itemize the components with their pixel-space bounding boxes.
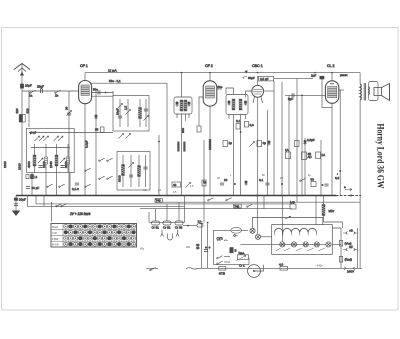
coil L1c [42,157,48,168]
terminal column right [357,228,359,268]
svg-text:2V + 120 km/s: 2V + 120 km/s [69,212,91,216]
IF transformer T1 outline [174,97,192,114]
trimmer arrows between L2 and L3 [118,133,130,138]
svg-text:1340: 1340 [49,161,53,168]
motor Cr1 [239,264,264,278]
socket Rad [339,257,352,263]
cap L2d [143,99,148,127]
arrow on bus right [344,185,352,191]
coil L1f [64,157,70,168]
tube CL2 [325,64,347,196]
capacitor on x=69 [65,91,72,196]
terminal strip box above Cr row [149,196,185,223]
svg-text:1310: 1310 [42,161,46,168]
svg-text:(Rad): (Rad) [345,258,353,262]
resistor Lsp [290,200,296,209]
terminal column left [340,228,342,268]
svg-text:Cr 1: Cr 1 [239,264,245,268]
svg-text:4000: 4000 [27,161,31,168]
switch table row labels [52,226,59,247]
wire x=274 [273,81,275,196]
wire y=222 to terminals [324,221,343,223]
wire lamp2 to heater box [261,236,272,238]
cap 60uF below L1 [26,186,39,190]
wire x=159 [158,135,160,196]
lower line y=202.2 [155,201,360,203]
screen wire y=83.2 [91,79,167,195]
wire x=204 column [203,140,205,223]
T1 bottom wires [177,114,189,196]
svg-text:CTR: CTR [217,237,224,241]
svg-text:0,1µF: 0,1µF [85,140,89,148]
link wire y=132.5 [29,132,113,134]
svg-text:Res.: Res. [239,251,245,255]
regulator Res [237,251,249,261]
heater top feed [253,218,323,229]
resistor box 4B/AD [302,152,313,160]
svg-text:40: 40 [196,246,200,250]
wire heater box to terminals [332,228,341,244]
svg-text:748: 748 [234,204,239,208]
coil L3c [138,155,141,187]
svg-text:0,1: 0,1 [259,178,264,182]
capacitor 25pF [37,85,44,94]
svg-text:90pF: 90pF [248,76,255,80]
svg-text:B: B [235,249,237,253]
wire antenna input y=91 [22,90,79,92]
svg-text:0,1: 0,1 [236,119,241,123]
svg-text:CF 2: CF 2 [205,64,213,68]
IF transformer T2 outline [226,95,248,115]
svg-text:+B: +B [349,229,353,233]
Cr terminal risers [156,202,180,221]
electrolytic pair 40uF [196,243,211,251]
box GTB [219,267,226,276]
terminal arrows on bottom line [344,267,355,274]
speaker return wire [359,100,361,268]
heater lamp 2 [291,242,296,247]
resistor 50 [311,178,317,187]
secondary coil [368,87,371,95]
T2 coil a [232,99,235,110]
svg-text:220: 220 [15,108,19,113]
svg-text:Cr 62: Cr 62 [163,226,171,230]
svg-text:3010: 3010 [118,175,122,182]
antenna [14,64,30,92]
svg-text:1A: 1A [285,148,289,152]
svg-text:25pF: 25pF [37,85,44,89]
svg-text:1310: 1310 [18,163,22,170]
mains vertical pair [200,222,209,268]
contact CTR [217,237,228,242]
svg-text:60c: 60c [186,245,191,249]
transformer core [364,83,365,101]
coil L3a [118,155,125,187]
switch lever a [217,256,230,259]
coil box L3 outline [117,152,150,191]
coil L1d [49,155,58,168]
output transformer primary coil [360,84,361,100]
wire x=321 down [320,140,322,196]
wire x=267 [267,110,269,196]
wire x=96 [95,91,97,196]
heater lamp 4 [314,242,319,247]
line cord capacitor oval [231,227,242,237]
switch levers below bus [208,198,253,208]
terminal +B [343,229,358,235]
bottom line y=268.3 [198,267,363,269]
vertical x=264 [263,196,265,209]
jumper squiggle on bottom line [186,268,198,269]
output choke [322,196,334,223]
capacitor 1uF stub [311,74,332,108]
coil taps [275,233,317,236]
svg-text:0,5 µF: 0,5 µF [260,77,269,81]
svg-text:Lsp: Lsp [290,200,295,204]
svg-text:1b: 1b [55,94,59,98]
svg-text:1,5: 1,5 [124,105,128,110]
resistor box 1A/AD 2 [316,152,326,159]
T1 cap left [175,102,178,107]
svg-text:35: 35 [95,128,99,132]
wire x=316 to heater box [315,196,317,225]
T1 coil b [184,100,187,111]
lower line y=208.7 [140,208,292,210]
svg-text:50c · 0,1: 50c · 0,1 [109,79,121,83]
coil box L2 outline [113,96,149,132]
fuse lamp 1 [250,228,255,233]
switch on heater feed [285,216,291,219]
svg-text:900: 900 [181,128,185,133]
svg-text:~240v: ~240v [315,264,323,268]
caps row y=184 left [72,183,79,191]
svg-text:Horny Lord 36 GW: Horny Lord 36 GW [375,124,385,189]
svg-text:µmax: µmax [340,73,348,77]
ground [12,211,20,217]
wire x=282 [281,82,283,196]
T1 feed wire [181,73,183,97]
svg-text:0,3: 0,3 [250,123,255,127]
speaker magnet and cone [374,84,390,101]
svg-text:50c: 50c [93,88,98,92]
fuse 1A link [183,220,203,228]
svg-text:Lt: Lt [35,175,38,179]
power unit box [214,230,250,264]
tube CF2 [197,64,223,196]
svg-text:1a: 1a [29,94,33,98]
rectifier to heater wire [281,196,283,242]
grid wire CL2 y=94 [285,93,325,101]
trimmer L2a [116,99,123,127]
tube CF1 [79,64,113,196]
coupling box 0.5uF [259,76,313,202]
svg-text:6,3: 6,3 [335,176,340,180]
box aD on bottom line [279,263,288,271]
capacitor 20pF on antenna lead [20,84,32,89]
svg-text:1A: 1A [322,153,326,157]
terminal Cr63 [175,221,183,230]
T2 cap right [244,101,247,106]
svg-text:20pF: 20pF [25,84,32,88]
wire left drop x=22 [21,91,23,196]
trimmer arrows row box L1 [30,131,63,141]
svg-text:MDr: MDr [329,209,335,213]
coil box L1 outline [27,128,75,172]
svg-text:4µ: 4µ [263,141,267,145]
T2 coil b [239,99,242,110]
coil taps below L1 [26,175,37,180]
switch S1b [55,90,61,97]
svg-text:HF: HF [349,245,353,249]
heater switch levers [276,248,325,251]
switch levers below L1 [47,184,65,187]
heater lamp 1 [280,242,285,247]
speaker coupling drop [359,73,361,84]
resistor box 748 [155,199,163,203]
wire stub x=29 [28,91,30,127]
coil L2c [139,99,142,127]
svg-text:C~: C~ [234,234,238,238]
secondary loop [369,82,379,101]
terminal HF [343,245,358,251]
resistor on x=204 [202,180,206,186]
heater dropping coil scallops [275,228,317,232]
chassis bus y=195.5 [16,195,336,197]
svg-text:80c: 80c [218,85,223,89]
cap L3d [143,155,147,187]
switch S2 above table [52,202,67,222]
svg-text:20µF: 20µF [19,198,26,202]
svg-text:CF 1: CF 1 [80,64,88,68]
svg-text:10pF: 10pF [116,108,120,115]
svg-text:1310: 1310 [3,161,7,168]
oscillator coil bars [177,142,185,152]
terminal Cr62 [163,221,171,230]
trimmer L1b [38,158,43,168]
svg-text:0,1·3: 0,1·3 [72,187,79,191]
coil B [230,248,237,253]
coil pair 220/220 [15,108,29,122]
bus drop ticks [36,196,44,207]
lower line y=203.9 [36,203,292,205]
switch on bottom line [146,268,158,271]
svg-text:748: 748 [156,199,161,203]
coil L1a [27,155,36,168]
verticals below L1 [32,173,70,196]
wire x=289 [288,95,290,195]
svg-text:Cr 63: Cr 63 [175,226,183,230]
components row above bus mid [203,178,283,186]
electrolytic 20uF [14,196,26,211]
trimmer L1e [60,158,65,168]
T1 cap right [187,102,190,107]
heater lamp 3 [303,242,308,247]
wire x=305 column [303,138,314,196]
svg-text:Stück: Stück [52,226,59,229]
switch lever right [300,178,306,181]
wire x=342.5 drop [342,222,344,228]
fuse lamp 2 [255,234,260,239]
svg-text:Cr 61: Cr 61 [152,226,160,230]
svg-text:I LW: I LW [52,232,57,235]
svg-text:III KW: III KW [52,244,59,247]
svg-text:30: 30 [65,106,69,110]
terminal Cr61 [152,221,160,230]
label smudges above bus [143,174,311,194]
switch lever b [217,261,230,264]
resistor box 748b [234,204,242,208]
svg-text:CL 2: CL 2 [327,64,334,68]
heater box outline [272,225,333,255]
switch table outline [51,224,137,248]
grid cap arrow CBC1 [243,71,256,80]
T1 coil a [180,100,183,111]
junction dots on bus [166,195,322,197]
svg-text:1µF: 1µF [311,74,316,78]
svg-text:10: 10 [224,178,228,182]
resistor box 1A/AD [285,148,291,159]
svg-text:0,5µF: 0,5µF [307,138,315,142]
resistor pair below CBC1 [236,119,254,133]
cap pair CL2 cathode [322,184,329,186]
heater chain wire [241,243,327,245]
wire x=302 [301,95,303,195]
svg-text:3010: 3010 [64,161,68,168]
svg-text:45c: 45c [140,247,145,251]
switch table contacts [64,224,136,246]
plug marks below terminals [161,230,180,241]
switch S1a [29,90,36,97]
tube CBC1 [246,64,275,234]
svg-text:II MW: II MW [52,238,59,241]
T2 wires [226,88,246,196]
svg-text:240V: 240V [347,270,354,274]
svg-text:CBC 1: CBC 1 [252,64,263,68]
svg-text:12 mA: 12 mA [108,69,117,73]
small switches under boxes [85,158,113,187]
svg-text:1µ: 1µ [229,141,233,145]
svg-text:40: 40 [173,183,177,187]
svg-text:60 µF: 60 µF [32,186,40,190]
socket Vcc [339,241,351,247]
svg-text:50: 50 [311,178,315,182]
anode bus y=72.6 [85,72,360,74]
svg-text:4,0: 4,0 [279,263,284,267]
T2 cap left [227,101,230,106]
trimmer L3b [128,155,133,187]
small boxes row y=140 [223,141,299,147]
trimmer L2b [124,99,131,127]
wires inside L1 [31,144,70,173]
heater lamp 5 [326,242,331,247]
resistor 40 with arrow [172,182,191,188]
wire step to lower line [28,196,186,207]
svg-text:GTB: GTB [219,272,225,276]
